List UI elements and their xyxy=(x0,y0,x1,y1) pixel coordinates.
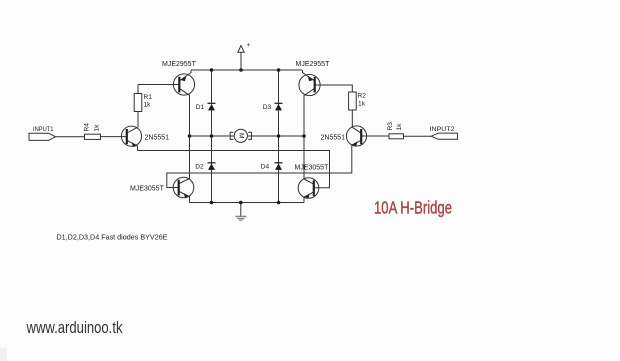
svg-text:MJE3055T: MJE3055T xyxy=(130,186,165,193)
svg-text:R1: R1 xyxy=(144,94,153,101)
svg-text:D1,D2,D3,D4 Fast diodes BYV26E: D1,D2,D3,D4 Fast diodes BYV26E xyxy=(57,232,168,241)
svg-text:D4: D4 xyxy=(261,164,270,171)
svg-text:1k: 1k xyxy=(358,101,366,108)
svg-text:1k: 1k xyxy=(396,123,403,131)
svg-text:www.arduinoo.tk: www.arduinoo.tk xyxy=(26,318,123,337)
svg-text:MJE3055T: MJE3055T xyxy=(295,164,330,171)
svg-text:INPUT1: INPUT1 xyxy=(33,126,54,133)
svg-text:INPUT2: INPUT2 xyxy=(430,126,455,133)
svg-text:R4: R4 xyxy=(84,123,91,132)
svg-text:M: M xyxy=(237,133,244,139)
svg-text:MJE2955T: MJE2955T xyxy=(296,61,331,68)
svg-text:10A H-Bridge: 10A H-Bridge xyxy=(374,197,452,217)
svg-text:2N5551: 2N5551 xyxy=(321,135,346,142)
svg-text:2N5551: 2N5551 xyxy=(145,135,170,142)
svg-text:D2: D2 xyxy=(195,164,204,171)
svg-text:R2: R2 xyxy=(358,93,367,100)
svg-text:R3: R3 xyxy=(387,122,394,131)
svg-text:D3: D3 xyxy=(263,104,272,111)
svg-text:MJE2955T: MJE2955T xyxy=(162,61,197,68)
svg-text:D1: D1 xyxy=(196,104,205,111)
svg-text:1k: 1k xyxy=(144,102,152,109)
svg-text:+: + xyxy=(247,42,251,49)
svg-text:1k: 1k xyxy=(94,124,101,132)
